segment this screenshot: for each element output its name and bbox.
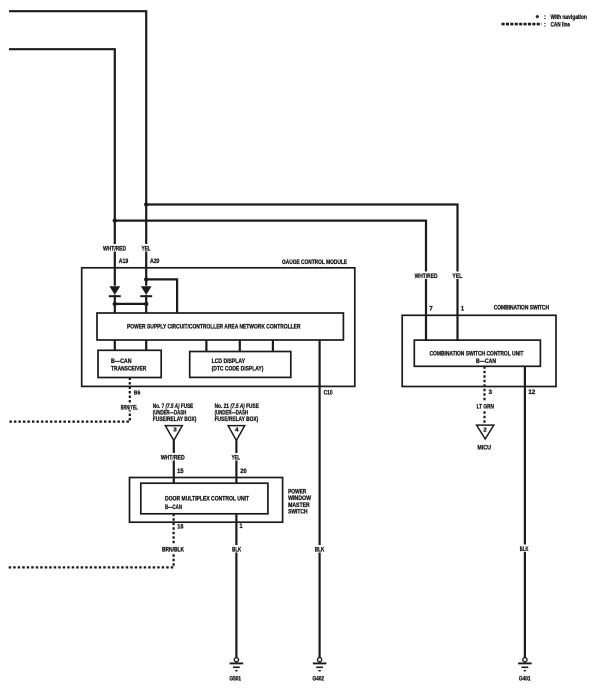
label BLK (C10 wire) bbox=[314, 545, 326, 553]
ground G501 bbox=[229, 658, 243, 683]
svg-text:WHT/RED: WHT/RED bbox=[415, 273, 438, 280]
fuse 21 connector triangle 4 bbox=[228, 426, 245, 441]
wire: controller to LCD display 2 bbox=[239, 340, 241, 352]
label WHT/RED (gauge) bbox=[102, 244, 127, 252]
svg-text:With navigation: With navigation bbox=[551, 14, 587, 21]
label BRN/BLK bbox=[161, 545, 185, 553]
svg-text:BRN/YEL: BRN/YEL bbox=[121, 404, 138, 411]
label WHT/RED (combination switch) bbox=[414, 272, 439, 280]
label BRN/YEL bbox=[119, 403, 139, 411]
legend: CAN line dashed sample bbox=[502, 23, 542, 26]
fuse 7 connector triangle 3 bbox=[165, 426, 182, 441]
box: combination switch control unit bbox=[414, 340, 540, 366]
svg-text:GAUGE CONTROL MODULE: GAUGE CONTROL MODULE bbox=[282, 259, 347, 266]
wire: diode bypass to controller bbox=[146, 279, 177, 313]
label WHT/RED (fuse 7) bbox=[160, 453, 186, 461]
wire: fuse 7 to door multiplex pin 15 bbox=[173, 441, 175, 484]
svg-text:G401: G401 bbox=[519, 676, 531, 683]
wire: door multiplex pin 1 to ground G501 bbox=[235, 514, 237, 658]
svg-text:BLK: BLK bbox=[315, 547, 325, 554]
box: power window master switch bbox=[130, 478, 283, 523]
wire: controller to B-CAN transceiver left bbox=[114, 340, 116, 350]
label BLK (combination switch) bbox=[519, 545, 530, 553]
box: power supply circuit / CAN controller bbox=[97, 313, 343, 340]
svg-text:3: 3 bbox=[173, 428, 177, 434]
svg-text:B—CAN: B—CAN bbox=[165, 504, 182, 511]
svg-text:FUSE/RELAY BOX): FUSE/RELAY BOX) bbox=[215, 416, 259, 423]
label YEL (fuse 21) bbox=[231, 453, 242, 461]
svg-text:COMBINATION SWITCH: COMBINATION SWITCH bbox=[494, 305, 550, 312]
box: door multiplex control unit bbox=[141, 483, 268, 514]
wire: controller to B-CAN transceiver right bbox=[145, 340, 147, 350]
ground G402 bbox=[312, 658, 326, 683]
svg-text:DOOR MULTIPLEX CONTROL UNIT: DOOR MULTIPLEX CONTROL UNIT bbox=[165, 496, 249, 503]
MICU connector triangle 2 bbox=[477, 425, 494, 439]
svg-text:15: 15 bbox=[177, 468, 184, 475]
svg-text:C10: C10 bbox=[324, 391, 334, 397]
wire: combination switch pin 3 dashed to MICU bbox=[483, 366, 485, 425]
svg-text:BLK: BLK bbox=[232, 547, 241, 554]
svg-text::: : bbox=[544, 14, 546, 21]
wire: diode cathode link bbox=[115, 303, 146, 305]
junction below D1 bbox=[113, 302, 117, 306]
wire: controller to LCD display 1 bbox=[205, 340, 207, 352]
svg-text:A20: A20 bbox=[150, 258, 160, 265]
label YEL (gauge) bbox=[141, 244, 152, 252]
svg-text:CAN line: CAN line bbox=[551, 22, 571, 29]
box: LCD display bbox=[190, 352, 291, 378]
svg-text:YEL: YEL bbox=[232, 455, 241, 462]
wire: controller to C10 and down to G402 bbox=[319, 340, 321, 658]
svg-text:A19: A19 bbox=[119, 258, 129, 265]
wire: WHT/RED feed from top-left to diode D1 bbox=[9, 49, 115, 286]
box: B-CAN transceiver bbox=[98, 350, 161, 377]
label BLK (pin 1 wire) bbox=[231, 545, 242, 553]
svg-text:20: 20 bbox=[240, 468, 247, 475]
svg-text:3: 3 bbox=[489, 389, 493, 396]
label LT GRN bbox=[476, 402, 495, 410]
svg-text:WHT/RED: WHT/RED bbox=[161, 455, 185, 462]
svg-text:SWITCH: SWITCH bbox=[288, 509, 308, 516]
svg-text:2: 2 bbox=[483, 428, 487, 434]
svg-text:1: 1 bbox=[461, 306, 464, 313]
svg-text:B—CAN: B—CAN bbox=[111, 358, 132, 365]
svg-text:*: * bbox=[536, 14, 540, 23]
svg-text:LT GRN: LT GRN bbox=[477, 403, 494, 410]
junction below D2 bbox=[144, 302, 148, 306]
svg-text:COMBINATION SWITCH CONTROL UNI: COMBINATION SWITCH CONTROL UNIT bbox=[430, 350, 524, 357]
svg-text:16: 16 bbox=[177, 523, 184, 530]
junction above D2 (bypass) bbox=[144, 277, 148, 281]
svg-text:(DTC CODE DISPLAY): (DTC CODE DISPLAY) bbox=[212, 366, 264, 373]
svg-text:FUSE/RELAY BOX): FUSE/RELAY BOX) bbox=[153, 416, 197, 423]
svg-text:BRN/BLK: BRN/BLK bbox=[162, 547, 184, 554]
wire: combination switch pin 12 to ground G401 bbox=[524, 366, 526, 657]
svg-text:MICU: MICU bbox=[477, 444, 491, 451]
svg-text:G402: G402 bbox=[312, 676, 324, 683]
diode D1 bbox=[109, 286, 120, 295]
svg-text:B6: B6 bbox=[134, 391, 141, 397]
svg-text:B—CAN: B—CAN bbox=[476, 358, 496, 365]
svg-text:4: 4 bbox=[235, 428, 239, 434]
svg-text::: : bbox=[544, 22, 546, 29]
svg-text:G501: G501 bbox=[229, 676, 241, 683]
label YEL (combination switch) bbox=[451, 272, 463, 280]
svg-text:12: 12 bbox=[528, 389, 535, 396]
svg-text:1: 1 bbox=[240, 523, 243, 530]
svg-text:LCD DISPLAY: LCD DISPLAY bbox=[212, 358, 246, 365]
wire: WHT/RED branch to combination switch pin 7 bbox=[115, 221, 426, 341]
svg-text:YEL: YEL bbox=[452, 273, 462, 280]
ground G401 bbox=[518, 658, 532, 683]
box: gauge control module bbox=[82, 268, 355, 387]
svg-text:7: 7 bbox=[429, 306, 433, 313]
wire: YEL feed from top-left to diode D2 bbox=[9, 11, 146, 286]
box: combination switch bbox=[402, 315, 556, 386]
svg-text:YEL: YEL bbox=[142, 246, 151, 253]
wire: fuse 21 to door multiplex pin 20 bbox=[235, 441, 237, 484]
wire: B6 dashed CAN line from B-CAN transceiver to left edge bbox=[9, 378, 130, 422]
svg-text:WHT/RED: WHT/RED bbox=[103, 246, 126, 253]
svg-text:BLK: BLK bbox=[520, 546, 529, 553]
junction on WHT/RED wire bbox=[113, 218, 117, 222]
junction on YEL wire bbox=[144, 202, 148, 206]
wire: door multiplex pin 16 dashed CAN to left edge bbox=[9, 514, 174, 568]
svg-text:POWER SUPPLY CIRCUIT/CONTROLLE: POWER SUPPLY CIRCUIT/CONTROLLER AREA NET… bbox=[127, 324, 301, 331]
diode D2 bbox=[141, 286, 152, 295]
wire: YEL branch to combination switch pin 1 bbox=[146, 205, 457, 342]
svg-text:TRANSCEIVER: TRANSCEIVER bbox=[111, 365, 147, 372]
wire: controller to LCD display 3 bbox=[272, 340, 274, 352]
